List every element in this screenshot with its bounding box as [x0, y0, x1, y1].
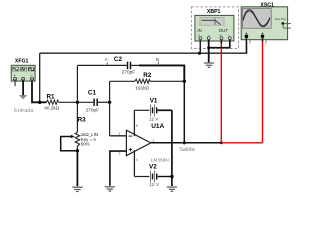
svg-text:3: 3	[119, 152, 121, 156]
svg-text:LM358N: LM358N	[151, 157, 170, 163]
wire: V1 to op-amp V+ pin	[133, 110, 135, 136]
svg-text:191kΩ: 191kΩ	[135, 85, 149, 90]
svg-text:12 V: 12 V	[149, 117, 160, 122]
svg-text:V1: V1	[150, 97, 158, 104]
svg-text:U1A: U1A	[151, 123, 164, 130]
svg-text:Salida: Salida	[179, 147, 195, 153]
node junction red/black at (221.4,142.8)	[220, 141, 223, 144]
wire: XBP1 OUT+ pin stub	[220, 40, 222, 44]
wire: red OUT+ vertical	[220, 40, 222, 143]
capacitor C2	[77, 56, 139, 74]
svg-text:OUT: OUT	[219, 28, 229, 33]
wire: XBP1 IN- down to ground	[208, 40, 210, 63]
battery V1	[134, 97, 172, 121]
function generator XFG1	[11, 59, 35, 81]
node junction R2 right (184.3,81.3)	[183, 80, 186, 83]
battery V2	[134, 164, 172, 187]
bode plotter XBP1 selection box	[191, 7, 238, 49]
resistor R1	[44, 93, 93, 110]
node junction scope B terminal	[261, 35, 265, 39]
scope unused - stubs	[249, 40, 251, 44]
node A junction (77.4,102.3)	[76, 101, 79, 104]
ground under XBP1	[204, 63, 214, 67]
svg-text:Entrada: Entrada	[14, 108, 34, 114]
op-amp U1A	[119, 123, 170, 164]
svg-text:XBP1: XBP1	[207, 9, 221, 15]
svg-text:40.2kΩ: 40.2kΩ	[44, 105, 59, 110]
svg-text:2: 2	[119, 132, 121, 136]
bode plotter XBP1	[195, 9, 234, 41]
svg-text:270pF: 270pF	[86, 107, 99, 112]
oscilloscope XSC1	[241, 2, 291, 39]
node junction at output (184.3,142.8)	[183, 141, 186, 144]
svg-text:IN: IN	[197, 28, 201, 33]
wire: V rail down right side	[171, 110, 173, 186]
svg-text:C1: C1	[88, 89, 97, 96]
wiper arrow	[61, 137, 78, 151]
svg-text:4: 4	[136, 158, 138, 162]
wire: red scope B vertical	[262, 41, 264, 143]
wire: output Salida row	[151, 142, 222, 144]
svg-text:Ext Trig: Ext Trig	[275, 17, 286, 21]
svg-text:V2: V2	[149, 164, 157, 171]
svg-text:8: 8	[136, 124, 138, 128]
wire: XBP1 OUT- to IN- vertical	[209, 40, 230, 48]
node junction at (39.7,102.3)	[38, 101, 41, 104]
capacitor C1	[86, 89, 110, 112]
wire: XBP1 IN+ down to rail	[199, 40, 201, 54]
svg-text:XFG1: XFG1	[15, 59, 29, 65]
svg-text:50%: 50%	[81, 141, 90, 146]
wire: input row y=102.3 from XFG1 to C1 junction	[32, 79, 46, 102]
ground under V rail	[167, 187, 177, 191]
node junction scope A terminal	[245, 35, 249, 39]
node junction V rail / V2 (171.9,176.5)	[170, 175, 173, 178]
svg-text:R3: R3	[78, 117, 87, 124]
resistor R2	[110, 72, 185, 91]
wire: R2 left up/down vertical x=109.6	[109, 81, 111, 136]
wire: red Salida segment to scope B	[221, 142, 262, 144]
ground under op-amp +	[105, 187, 115, 191]
svg-text:C2: C2	[114, 56, 123, 63]
wire: tap from input node up to measurement rail	[39, 53, 41, 102]
wire: node A up to C2 branch	[76, 65, 78, 102]
wire: top rail y=53.2 to scope A	[40, 41, 247, 53]
ground under R3	[72, 187, 82, 191]
svg-text:12 V: 12 V	[149, 182, 160, 187]
wire: C2 to feedback corner (thick)	[139, 65, 184, 81]
svg-text:R1: R1	[47, 93, 56, 100]
svg-text:270pF: 270pF	[122, 69, 135, 74]
wire: op-amp V- pin to V2	[133, 150, 135, 176]
wire: feedback vertical to output	[183, 81, 185, 143]
node Entrada arrow	[19, 95, 26, 99]
wire: scope B stub	[262, 36, 264, 41]
node junction (109.6,102.3)	[108, 101, 111, 104]
node junction IN+ on rail	[198, 52, 201, 55]
potentiometer R3	[61, 102, 98, 186]
wire: XFG1 + stub	[14, 80, 16, 86]
wire: scope A stub down to rail	[245, 36, 247, 53]
wire: XFG1 COM down to arrow	[22, 80, 24, 95]
wire: op-amp + input to ground	[110, 151, 127, 186]
svg-text:R2: R2	[143, 72, 152, 79]
